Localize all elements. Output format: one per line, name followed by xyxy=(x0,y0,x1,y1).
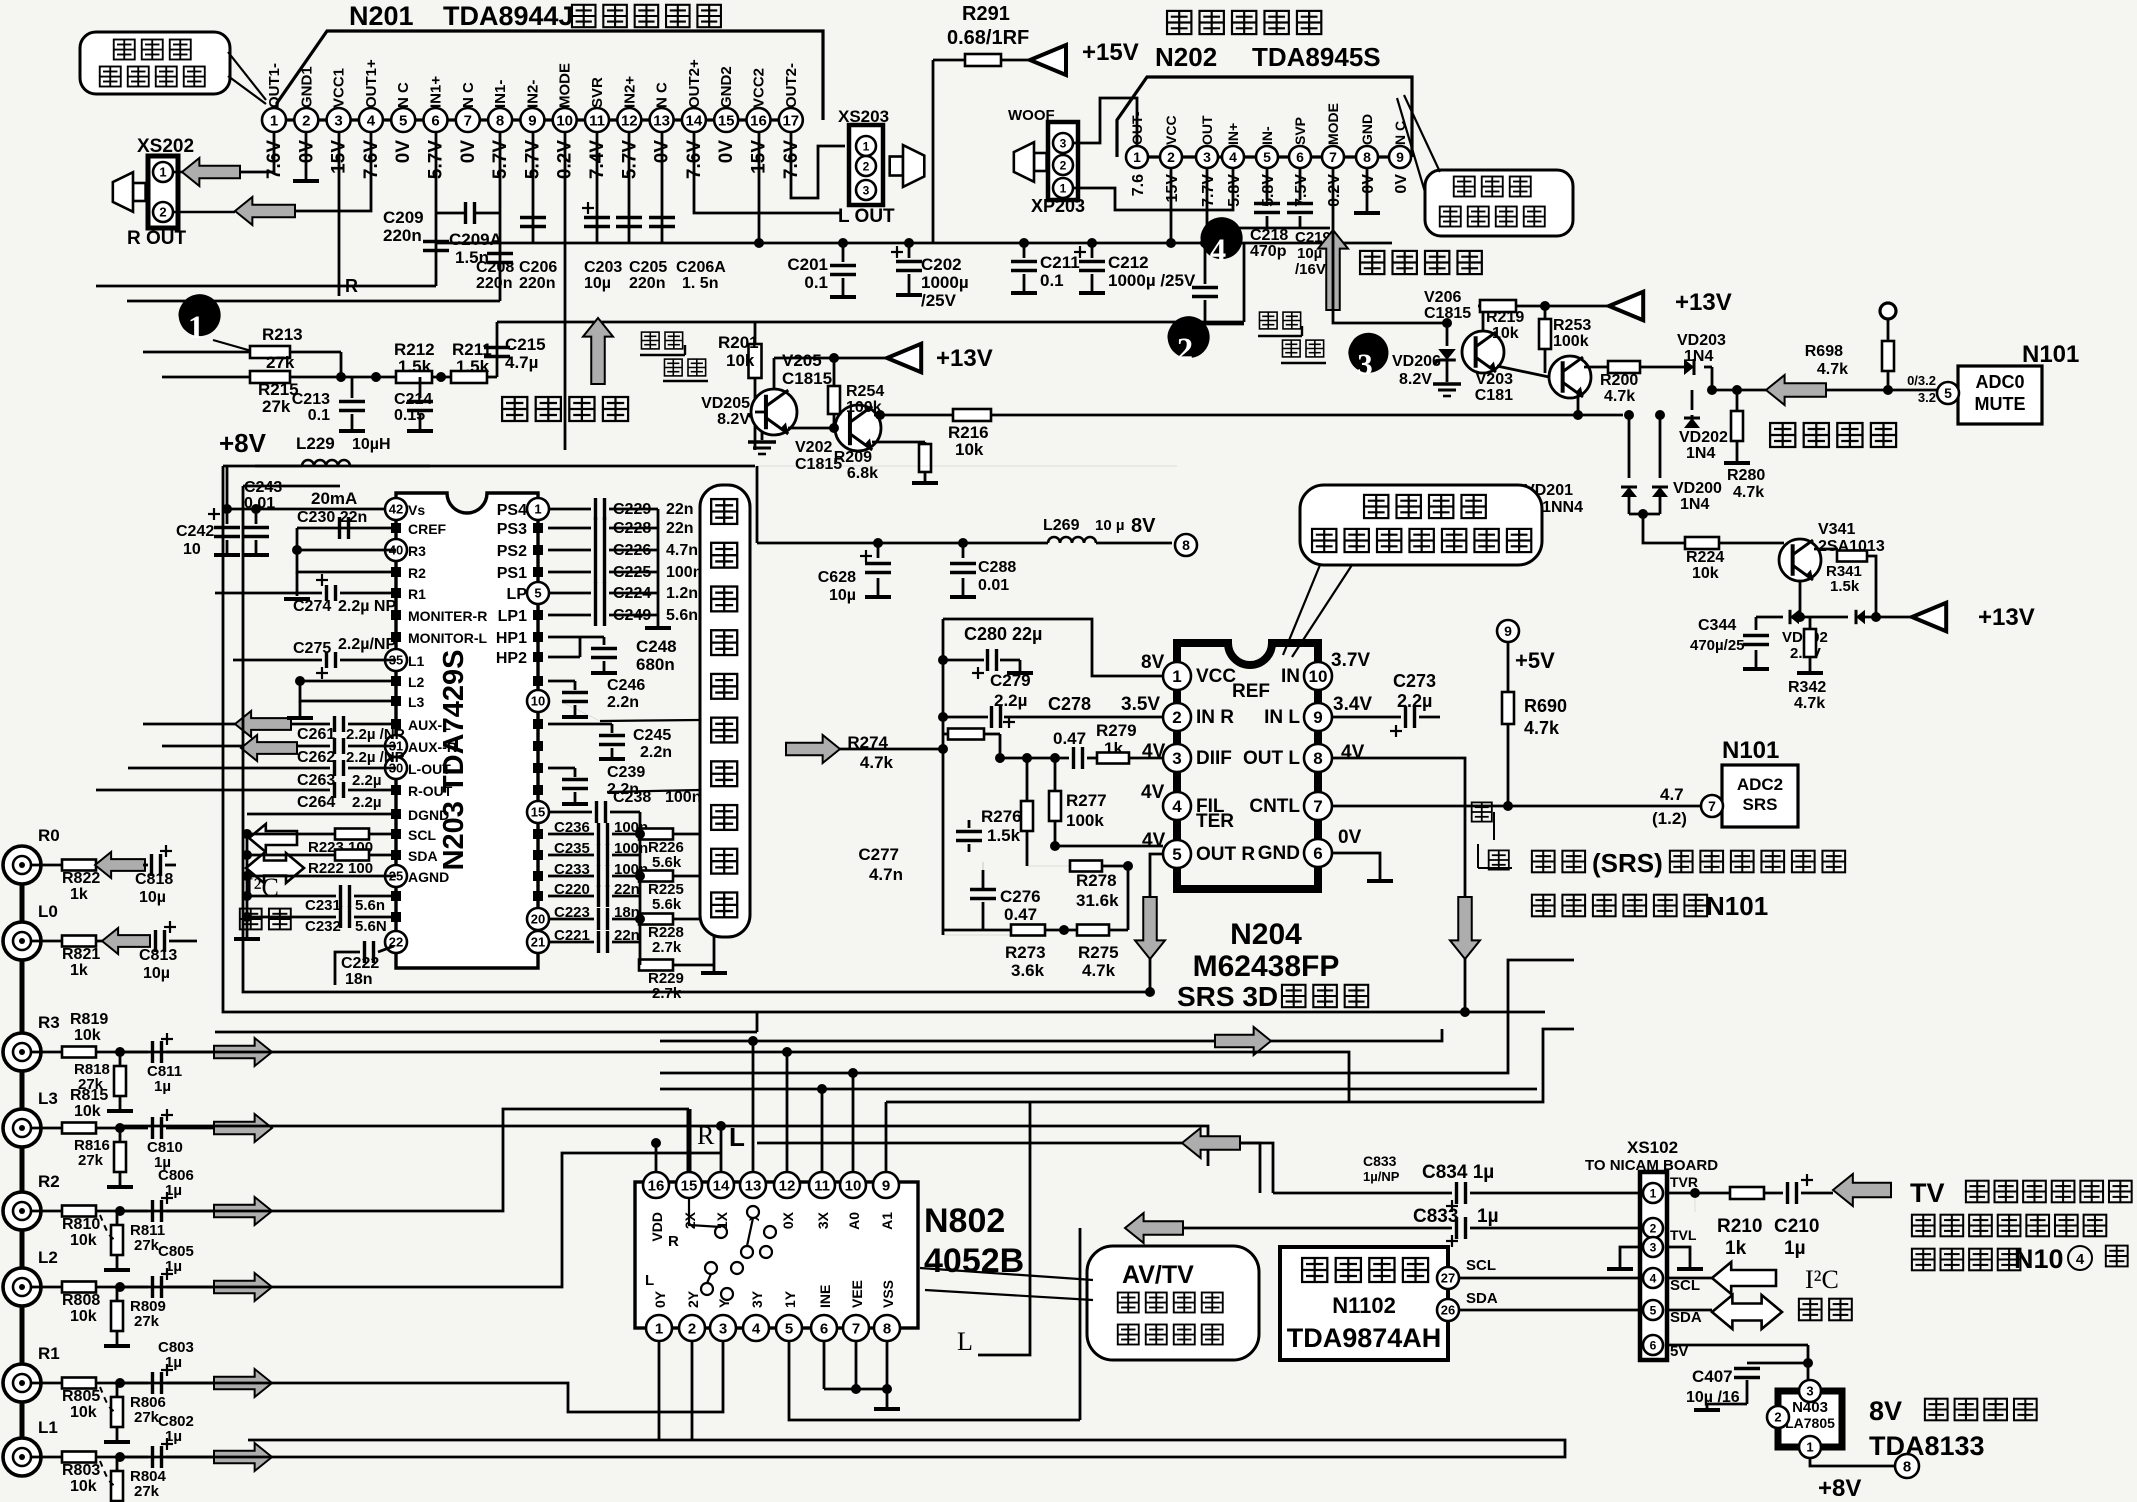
gray arrow L2 xyxy=(214,1273,272,1301)
svg-text:L2: L2 xyxy=(38,1248,58,1267)
svg-text:VCC: VCC xyxy=(1163,115,1179,145)
svg-text:C231: C231 xyxy=(305,897,341,914)
svg-text:VSS: VSS xyxy=(880,1280,896,1308)
capacitor C813 10u xyxy=(154,930,157,952)
RCA jack L3 xyxy=(3,1109,41,1147)
node 8 circle xyxy=(1175,534,1197,556)
svg-text:5.8V: 5.8V xyxy=(1226,174,1243,207)
wire XS202 pin2 to N201 pin4 xyxy=(173,211,235,214)
svg-text:C229: C229 xyxy=(613,501,651,518)
N802 pin 15 2X xyxy=(676,1172,702,1198)
svg-text:7: 7 xyxy=(1313,797,1322,816)
svg-text:N1102: N1102 xyxy=(1332,1293,1396,1318)
svg-text:20mA: 20mA xyxy=(311,489,357,508)
svg-text:3X: 3X xyxy=(815,1211,831,1229)
svg-text:C243: C243 xyxy=(244,479,282,496)
svg-text:5: 5 xyxy=(1172,845,1181,864)
I2C CJK xyxy=(240,909,262,930)
capacitor C206A 1.5n xyxy=(661,132,664,243)
N203 pin R3 xyxy=(385,539,407,561)
resistor R815 10k xyxy=(31,1127,62,1130)
N201 pin 3 VCC1 xyxy=(327,108,351,132)
svg-text:8: 8 xyxy=(1363,149,1371,165)
svg-text:R253: R253 xyxy=(1553,317,1591,334)
svg-text:2: 2 xyxy=(1650,1221,1657,1235)
svg-text:SVR: SVR xyxy=(589,77,606,108)
svg-text:C239: C239 xyxy=(607,764,645,781)
wire N201 pin3 VCC1 down xyxy=(338,132,341,296)
svg-text:R201: R201 xyxy=(718,333,759,352)
svg-text:C279: C279 xyxy=(990,671,1031,690)
wire N202 VCC pin2 to rail xyxy=(1170,168,1173,243)
N802 pin 4 3Y xyxy=(743,1315,769,1341)
svg-text:V202: V202 xyxy=(795,439,832,456)
svg-text:21: 21 xyxy=(531,935,545,950)
svg-text:22n: 22n xyxy=(666,520,694,537)
node 9 +5V R690 xyxy=(1497,620,1519,642)
svg-text:10k: 10k xyxy=(74,1027,101,1044)
svg-text:IN R: IN R xyxy=(1196,707,1234,728)
svg-text:N201: N201 xyxy=(349,1,414,31)
svg-text:2.7k: 2.7k xyxy=(652,985,682,1002)
svg-text:220n: 220n xyxy=(629,275,665,292)
svg-text:+15V: +15V xyxy=(1082,39,1139,66)
N802 pin 9 A1 xyxy=(873,1172,899,1198)
svg-text:+8V: +8V xyxy=(219,428,267,458)
svg-text:C206A: C206A xyxy=(676,259,726,276)
svg-text:C210: C210 xyxy=(1774,1216,1819,1237)
pin 5 ADC0 xyxy=(1937,382,1959,404)
junction TVR xyxy=(1690,1188,1700,1198)
svg-text:3.4V: 3.4V xyxy=(1333,694,1372,715)
capacitor C219 10u/16V xyxy=(1299,168,1302,200)
N802 pin 12 0X xyxy=(774,1172,800,1198)
svg-text:C813: C813 xyxy=(139,947,177,964)
svg-text:VD202: VD202 xyxy=(1679,429,1728,446)
wire N403 pin1 to +8V node 8 xyxy=(1810,1458,1895,1466)
N203 outer box left/bottom xyxy=(223,466,1545,1012)
svg-text:SCL: SCL xyxy=(408,827,436,843)
svg-text:42: 42 xyxy=(389,502,403,517)
capacitor C275 2.2u/NP xyxy=(233,659,322,662)
svg-text:C275: C275 xyxy=(293,640,331,657)
svg-text:1: 1 xyxy=(655,1320,663,1337)
svg-text:3: 3 xyxy=(1357,346,1373,381)
resistor R223 100 xyxy=(311,833,336,836)
capacitor C245 2.2n xyxy=(548,723,612,726)
svg-text:C223: C223 xyxy=(554,904,590,921)
svg-text:10: 10 xyxy=(845,1177,862,1194)
wires VEE INE xyxy=(855,1341,858,1389)
N203 pin R1 xyxy=(391,588,401,598)
SRS switch symbol xyxy=(1472,802,1492,821)
svg-text:IN1+: IN1+ xyxy=(428,76,445,108)
transistor V341 2SA1013 xyxy=(1779,539,1821,581)
svg-text:5: 5 xyxy=(399,112,407,129)
svg-text:R275: R275 xyxy=(1078,943,1119,962)
svg-text:4.7µ: 4.7µ xyxy=(505,353,538,372)
svg-text:IN2+: IN2+ xyxy=(621,76,638,108)
svg-text:220n: 220n xyxy=(383,226,422,245)
wire CNTL pin7 xyxy=(1332,805,1712,808)
RCA jack L0 xyxy=(3,922,41,960)
svg-text:1µ: 1µ xyxy=(1784,1238,1806,1259)
N802 pin 11 3X xyxy=(809,1172,835,1198)
svg-text:GND1: GND1 xyxy=(298,66,315,108)
N203 pin SCL xyxy=(391,829,401,839)
N201 pin 14 OUT2+ xyxy=(682,108,706,132)
svg-text:6: 6 xyxy=(1313,844,1322,863)
svg-text:L: L xyxy=(957,1327,973,1356)
svg-text:C209A: C209A xyxy=(449,230,502,249)
svg-text:10µ: 10µ xyxy=(143,965,170,982)
svg-text:1: 1 xyxy=(534,502,541,517)
gray arrow on y1041 xyxy=(1215,1027,1271,1055)
wire N802 pin2 to bus xyxy=(691,1341,694,1440)
N202 pin 2 VCC xyxy=(1160,146,1182,168)
N802 pin 16 VDD xyxy=(643,1172,669,1198)
svg-text:C245: C245 xyxy=(633,727,671,744)
N201 pin 4 OUT1+ xyxy=(359,108,383,132)
svg-text:C276: C276 xyxy=(1000,887,1041,906)
N802 pin 7 VEE xyxy=(843,1315,869,1341)
svg-text:PS4: PS4 xyxy=(497,502,527,519)
N203 pin MONITOR-L xyxy=(391,632,401,642)
N202 pin 7 MODE xyxy=(1322,146,1344,168)
row R1 divider and coupling xyxy=(115,1378,125,1388)
I2C arrows right xyxy=(1712,1262,1776,1294)
resistor R212 1.5k xyxy=(341,376,397,379)
svg-text:TDA8944J: TDA8944J xyxy=(443,1,574,31)
svg-text:27k: 27k xyxy=(134,1313,160,1330)
diode VD202b xyxy=(1790,610,1799,624)
svg-text:2: 2 xyxy=(159,205,166,220)
svg-text:100k: 100k xyxy=(1066,811,1104,830)
svg-text:2.2n: 2.2n xyxy=(607,694,639,711)
svg-text:SDA: SDA xyxy=(1670,1309,1702,1326)
svg-text:1: 1 xyxy=(1650,1186,1657,1200)
row R3 divider and coupling xyxy=(115,1047,125,1057)
balloon leader lines xyxy=(228,52,266,100)
svg-text:C834 1µ: C834 1µ xyxy=(1422,1162,1494,1183)
svg-text:2: 2 xyxy=(1774,1410,1781,1425)
svg-text:TVL: TVL xyxy=(1670,1227,1697,1243)
capacitor C236 100n xyxy=(548,833,594,836)
svg-text:R279: R279 xyxy=(1096,721,1137,740)
wire Vs feed y509 xyxy=(227,508,385,511)
+13V triangle top xyxy=(773,358,776,389)
wire V206 emitter to V203 base xyxy=(1497,366,1549,377)
DGND SCL SDA AGND stubs xyxy=(247,813,396,816)
N204 pin 1 VCC xyxy=(1163,662,1191,690)
svg-text:26: 26 xyxy=(1441,1303,1455,1318)
svg-text:OUT R: OUT R xyxy=(1196,844,1255,865)
svg-text:100k: 100k xyxy=(1553,333,1589,350)
wire OUT R pin5 down xyxy=(1150,854,1163,992)
svg-text:C1815: C1815 xyxy=(782,369,832,388)
capacitor C274 2.2uNP xyxy=(215,592,322,595)
N204 pin 3 DIIF xyxy=(1163,744,1191,772)
svg-text:27k: 27k xyxy=(78,1076,104,1093)
svg-text:R342: R342 xyxy=(1788,679,1826,696)
mute control label N202 (CJK) xyxy=(1360,251,1384,274)
svg-text:C205: C205 xyxy=(629,259,667,276)
svg-text:2: 2 xyxy=(863,159,870,173)
gray arrow mute N202 xyxy=(1318,230,1348,310)
svg-text:8: 8 xyxy=(883,1320,891,1337)
svg-text:R3: R3 xyxy=(38,1013,60,1032)
wire R213 junction down xyxy=(340,352,343,377)
svg-text:10: 10 xyxy=(556,112,573,129)
RCA jack L1 xyxy=(3,1438,41,1476)
svg-text:0.47: 0.47 xyxy=(1053,729,1086,748)
gray arrow mute up xyxy=(583,318,613,384)
svg-text:IN: IN xyxy=(1281,666,1300,687)
svg-text:C208: C208 xyxy=(476,259,514,276)
svg-text:R698: R698 xyxy=(1805,343,1843,360)
svg-text:14: 14 xyxy=(686,112,703,129)
svg-text:15: 15 xyxy=(531,805,545,820)
capacitor C228 22n xyxy=(548,527,591,530)
N203 pin 22 xyxy=(385,931,407,953)
svg-text:5: 5 xyxy=(785,1320,793,1337)
svg-text:C280 22µ: C280 22µ xyxy=(964,624,1042,644)
svg-text:8: 8 xyxy=(1313,749,1322,768)
svg-text:10: 10 xyxy=(183,541,201,558)
svg-text:0Y: 0Y xyxy=(652,1290,668,1308)
svg-text:VD205: VD205 xyxy=(701,395,750,412)
svg-text:1000µ: 1000µ xyxy=(921,273,969,292)
svg-text:1k: 1k xyxy=(70,962,88,979)
svg-text:VDD: VDD xyxy=(649,1212,665,1242)
svg-text:2: 2 xyxy=(1060,158,1067,172)
N201 pin 12 IN2+ xyxy=(617,108,641,132)
svg-text:N101: N101 xyxy=(2022,341,2079,368)
XS102 pin3 ground hooks xyxy=(1620,1247,1640,1268)
svg-text:1: 1 xyxy=(159,165,166,180)
long input wire R1 row xyxy=(120,1341,723,1412)
svg-text:L1: L1 xyxy=(408,653,425,669)
balloon virtual 3D stereo processing xyxy=(1300,485,1542,565)
N203 pin CREF xyxy=(391,523,401,533)
diode VD344 xyxy=(1856,610,1865,624)
svg-text:11: 11 xyxy=(589,112,605,129)
svg-text:OUT L: OUT L xyxy=(1243,748,1300,769)
svg-text:1µ: 1µ xyxy=(165,1182,182,1199)
wire TVL drop xyxy=(1079,1228,1082,1420)
svg-text:V205: V205 xyxy=(782,351,822,370)
svg-text:C222: C222 xyxy=(341,955,379,972)
resistor R219 10k xyxy=(1482,306,1485,331)
svg-text:7: 7 xyxy=(1708,798,1716,814)
svg-text:R3: R3 xyxy=(408,543,426,559)
verticals into N802 top pins xyxy=(655,1143,658,1172)
svg-text:13: 13 xyxy=(745,1177,762,1194)
svg-text:IN1-: IN1- xyxy=(492,80,509,108)
svg-text:10k: 10k xyxy=(955,440,984,459)
svg-text:10k: 10k xyxy=(70,1308,97,1325)
svg-text:V206: V206 xyxy=(1424,289,1461,306)
svg-text:DIIF: DIIF xyxy=(1196,748,1232,769)
svg-text:1: 1 xyxy=(1806,1440,1813,1455)
N204 pin 2 IN R xyxy=(1163,703,1191,731)
svg-text:10k: 10k xyxy=(70,1478,97,1495)
svg-text:DGND: DGND xyxy=(408,807,449,823)
svg-text:XP203: XP203 xyxy=(1031,196,1085,216)
resistor R341 1.5k xyxy=(1814,548,1838,551)
svg-text:N802: N802 xyxy=(924,1202,1005,1240)
svg-text:(1.2): (1.2) xyxy=(1652,809,1687,828)
svg-text:L2: L2 xyxy=(408,674,425,690)
wire rail corner to y322 line xyxy=(1243,243,1246,322)
svg-text:1: 1 xyxy=(1133,149,1141,165)
svg-text:N C: N C xyxy=(395,82,412,108)
N203 pin L1 xyxy=(385,649,407,671)
svg-text:SVP: SVP xyxy=(1292,117,1308,145)
svg-text:LA7805: LA7805 xyxy=(1785,1415,1835,1431)
svg-text:R213: R213 xyxy=(262,325,303,344)
resistor R215 27k xyxy=(162,376,251,379)
capacitor C211 0.1 xyxy=(1023,243,1026,258)
capacitor C206 220n xyxy=(532,132,535,243)
capacitor C232 5.6N xyxy=(308,916,336,919)
svg-text:1µ: 1µ xyxy=(165,1428,182,1445)
svg-text:5: 5 xyxy=(1263,149,1271,165)
svg-text:IN2-: IN2- xyxy=(524,80,541,108)
svg-text:MUTE: MUTE xyxy=(1975,394,2026,414)
svg-text:3: 3 xyxy=(1806,1384,1813,1399)
svg-text:R200: R200 xyxy=(1600,372,1638,389)
balloon N202 leader lines xyxy=(1397,98,1425,192)
+13V triangle right xyxy=(1609,292,1643,321)
svg-text:3.6k: 3.6k xyxy=(1011,961,1045,980)
svg-text:8: 8 xyxy=(496,112,504,129)
svg-text:4.7k: 4.7k xyxy=(1794,695,1825,712)
N202 pin 1 OUT- xyxy=(1126,146,1148,168)
svg-text:3: 3 xyxy=(1060,136,1067,150)
wire N202 pin3 OUT down xyxy=(1207,168,1330,228)
N802 pin 2 2Y xyxy=(679,1315,705,1341)
svg-text:2.2µ: 2.2µ xyxy=(352,794,382,811)
capacitor near node 4 xyxy=(1204,243,1207,284)
transistor V202 C1815 xyxy=(835,405,881,451)
mute/normal switch at N202 xyxy=(1259,312,1277,329)
transistor V206 C1815 xyxy=(1462,331,1504,373)
svg-text:C248: C248 xyxy=(636,637,677,656)
RCA jack chain vertical bus xyxy=(20,883,25,1457)
svg-text:0V: 0V xyxy=(716,140,737,164)
svg-text:8: 8 xyxy=(1903,1458,1911,1475)
long input wire R2 row xyxy=(120,1109,689,1211)
svg-text:20: 20 xyxy=(531,912,545,927)
leader lines xyxy=(920,1268,1093,1280)
svg-text:0X: 0X xyxy=(780,1211,796,1229)
svg-text:VCC: VCC xyxy=(1196,666,1236,687)
svg-text:R274: R274 xyxy=(847,733,888,752)
IC N202 body outline xyxy=(1117,77,1412,157)
svg-text:6.8k: 6.8k xyxy=(847,465,878,482)
wire XS202 pin1 to N201 pin1 xyxy=(173,171,182,174)
svg-text:5: 5 xyxy=(534,586,541,601)
svg-text:OUT2+: OUT2+ xyxy=(686,59,703,108)
N802 pin 6 INE xyxy=(811,1315,837,1341)
svg-text:12: 12 xyxy=(779,1177,796,1194)
svg-text:0.01: 0.01 xyxy=(978,577,1009,594)
svg-text:SDA: SDA xyxy=(1466,1290,1498,1307)
resistor R805 10k xyxy=(31,1382,62,1385)
capacitor C231 5.6n xyxy=(308,895,336,898)
numbered node 3 xyxy=(1348,333,1388,373)
svg-text:+13V: +13V xyxy=(1978,604,2035,631)
capacitor C344 470u/25 xyxy=(1755,617,1758,630)
svg-text:R OUT: R OUT xyxy=(127,228,187,249)
capacitor C239 2.2n xyxy=(548,767,575,770)
resistor network R226 R225 R228 R229 xyxy=(639,829,673,840)
wire V205 emitter to V202 base xyxy=(788,427,835,430)
balloon label: dual-channel amp circuit xyxy=(80,32,230,94)
svg-text:1k: 1k xyxy=(70,886,88,903)
wire 8V down to N204 VCC xyxy=(756,466,759,543)
wire 5V xyxy=(1667,1344,1808,1347)
N201 pin 6 IN1+ xyxy=(424,108,448,132)
N1102 NICAM box xyxy=(1280,1247,1448,1360)
svg-text:MONITOR-L: MONITOR-L xyxy=(408,630,488,646)
svg-text:C833: C833 xyxy=(1413,1206,1458,1227)
svg-text:7.7V: 7.7V xyxy=(1200,174,1217,207)
svg-text:C277: C277 xyxy=(858,845,899,864)
wire N201 pin16 VCC2 down to rail xyxy=(758,132,761,243)
capacitor C246 2.2n xyxy=(548,680,575,683)
N201 pin 17 OUT2- xyxy=(779,108,803,132)
svg-text:4.7n: 4.7n xyxy=(869,865,903,884)
svg-text:1000µ /25V: 1000µ /25V xyxy=(1108,271,1196,290)
svg-text:3: 3 xyxy=(1203,149,1211,165)
svg-text:R224: R224 xyxy=(1686,549,1724,566)
svg-text:L3: L3 xyxy=(408,694,425,710)
svg-text:27k: 27k xyxy=(78,1152,104,1169)
gray arrow R3 xyxy=(214,1038,272,1066)
svg-text:15: 15 xyxy=(681,1177,698,1194)
svg-text:10µH: 10µH xyxy=(352,436,391,453)
svg-text:C833: C833 xyxy=(1363,1153,1397,1169)
svg-text:0V: 0V xyxy=(458,140,479,164)
svg-text:SRS 3D: SRS 3D xyxy=(1177,981,1278,1012)
svg-text:L-OUT: L-OUT xyxy=(408,761,451,777)
svg-text:4.7k: 4.7k xyxy=(1733,484,1764,501)
svg-text:4V: 4V xyxy=(1141,782,1165,803)
resistor R819 10k xyxy=(31,1051,62,1054)
gray arrow L3 xyxy=(214,1114,272,1142)
svg-text:1: 1 xyxy=(188,310,204,346)
diode VD202 1N4 vertical xyxy=(1691,390,1694,410)
gray arrow L1 xyxy=(214,1443,272,1471)
svg-text:1µ/NP: 1µ/NP xyxy=(1363,1169,1400,1184)
N203 pin L-OUT xyxy=(385,757,407,779)
wire GND pin6 xyxy=(1332,853,1380,880)
resistor R822 1k xyxy=(31,864,62,867)
svg-text:VCC1: VCC1 xyxy=(331,68,348,108)
svg-text:N203 TDA7429S: N203 TDA7429S xyxy=(438,650,470,871)
svg-text:C202: C202 xyxy=(921,255,962,274)
capacitor C214 0.15 xyxy=(419,377,422,398)
svg-text:8V: 8V xyxy=(1131,515,1156,537)
balloon subwoofer amp circuit xyxy=(1425,170,1573,236)
capacitor C288 0.01 xyxy=(958,538,968,548)
svg-text:5: 5 xyxy=(1650,1303,1657,1317)
svg-text:3.5V: 3.5V xyxy=(1121,694,1160,715)
wire R341 to emitter junction xyxy=(1867,556,1876,617)
AV1 wire xyxy=(660,960,1574,1073)
